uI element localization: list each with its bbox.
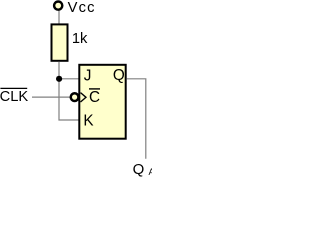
wire resistor bottom down and over to K input <box>59 62 79 120</box>
svg-text:CLK: CLK <box>0 89 28 105</box>
flip-flop U1 body <box>79 65 125 139</box>
junction dot <box>56 76 62 82</box>
svg-text:K: K <box>83 113 94 130</box>
svg-text:1k: 1k <box>72 31 88 47</box>
wire CLK to clock bubble <box>32 96 70 98</box>
wire Q output to QA <box>127 79 146 159</box>
svg-text:Q: Q <box>133 161 145 177</box>
svg-text:A: A <box>149 167 153 177</box>
resistor R 1k <box>52 24 68 60</box>
svg-text:J: J <box>84 68 92 85</box>
svg-text:Q: Q <box>113 67 125 84</box>
clock inversion bubble <box>71 93 79 101</box>
wire Vcc terminal to resistor <box>58 10 60 24</box>
power terminal Vcc <box>54 2 62 10</box>
clock edge chevron <box>81 93 87 102</box>
wire node to J input <box>59 78 79 80</box>
svg-text:C: C <box>89 89 100 106</box>
svg-text:Vcc: Vcc <box>68 0 96 16</box>
